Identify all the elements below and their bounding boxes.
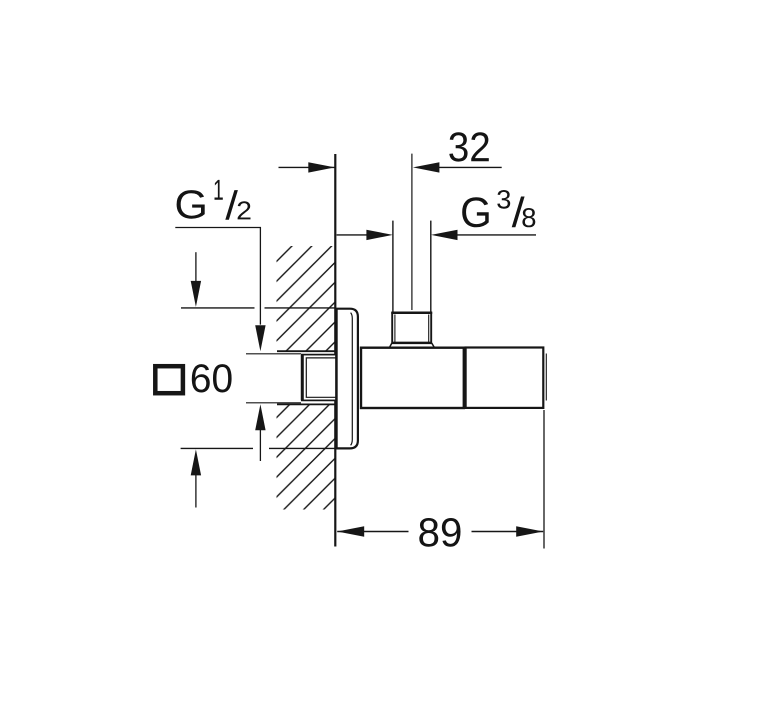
dim 89 right arrow xyxy=(516,526,543,537)
flange dim up arrow xyxy=(191,449,201,475)
flange edge highlight xyxy=(351,313,353,446)
clearance hole top edge xyxy=(277,350,335,352)
dim G3/8 right arrow xyxy=(431,230,458,240)
handle edge highlight xyxy=(545,354,547,401)
handle extension line xyxy=(543,410,545,549)
wall hatching lower xyxy=(277,405,335,510)
connection nut xyxy=(392,313,431,343)
dim 32 right line xyxy=(438,166,502,168)
flange dim down arrow xyxy=(195,252,197,282)
dim G3/8 right line xyxy=(456,234,536,236)
dim 89 left arrow xyxy=(337,526,364,537)
thread dim extension bottom xyxy=(246,402,301,404)
clearance hole bottom edge xyxy=(277,403,335,405)
flange dim extension bottom xyxy=(181,447,253,449)
dim square60 text xyxy=(192,364,232,392)
wall surface line xyxy=(334,154,336,547)
pipe centerline xyxy=(411,154,413,310)
dim 32 right arrow xyxy=(413,162,440,172)
dim 89 text xyxy=(419,518,460,547)
label G1/2 text xyxy=(177,190,205,219)
dim 32 left arrow xyxy=(308,162,335,172)
wall hatching upper xyxy=(277,246,335,351)
dim 32 text xyxy=(449,132,489,161)
G1/2 leader arrow xyxy=(255,325,265,351)
G1/2 leader line xyxy=(175,228,260,325)
outlet pipe G3/8 left line xyxy=(392,221,394,313)
outlet pipe G3/8 right line xyxy=(430,221,432,313)
nut skirt taper xyxy=(390,343,435,347)
valve body xyxy=(361,348,464,408)
dim G3/8 left arrow xyxy=(366,230,393,240)
dim 32 left line xyxy=(279,166,335,168)
handle block xyxy=(466,348,544,408)
dim G3/8 left line xyxy=(337,234,368,236)
flange dim extension top xyxy=(181,307,255,309)
G1/2 threaded inlet spigot xyxy=(302,355,336,401)
dim G3/8 text xyxy=(462,197,489,227)
dim square60 symbol xyxy=(155,366,183,393)
escutcheon flange xyxy=(337,309,358,449)
thread dim extension top xyxy=(246,353,301,355)
thread dim up arrow xyxy=(255,404,265,430)
dim 89 line xyxy=(337,531,408,533)
